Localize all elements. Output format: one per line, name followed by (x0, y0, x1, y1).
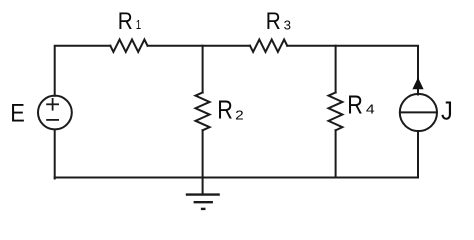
resistor R2 (196, 93, 210, 131)
wire left-lower segment (54, 130, 56, 179)
wire arrow-to-circle stub (417, 88, 419, 95)
svg-text:E: E (10, 99, 25, 127)
resistor R4 (329, 93, 343, 131)
wire R4 branch upper (335, 46, 337, 93)
current source J diameter line (400, 111, 437, 113)
resistor R1 (110, 40, 147, 52)
svg-text:R: R (217, 97, 233, 125)
wire middle branch upper (202, 46, 204, 93)
wire top-middle segment (148, 45, 251, 47)
svg-text:R: R (118, 8, 133, 35)
svg-text:3: 3 (284, 18, 291, 33)
wire R4 branch lower (335, 130, 337, 177)
resistor R3 (250, 40, 287, 52)
svg-text:J: J (441, 98, 453, 126)
wire middle branch lower (202, 130, 204, 177)
wire top-left segment (55, 46, 111, 96)
E plus sign (46, 103, 59, 105)
svg-text:4: 4 (366, 102, 375, 117)
wire right branch lower (417, 131, 419, 178)
svg-text:2: 2 (235, 107, 244, 122)
ground bar 1 (186, 193, 220, 195)
E minus sign (46, 119, 59, 121)
svg-text:1: 1 (136, 17, 141, 32)
ground bar 3 (201, 208, 206, 210)
current source arrow (413, 78, 423, 88)
svg-text:R: R (266, 8, 281, 35)
wire top-right segment (287, 46, 418, 79)
wire bottom (55, 177, 418, 179)
ground stub wire (202, 178, 204, 195)
svg-text:R: R (347, 92, 363, 120)
ground bar 2 (194, 201, 213, 203)
voltage source E (38, 96, 72, 130)
current source J (400, 94, 437, 131)
